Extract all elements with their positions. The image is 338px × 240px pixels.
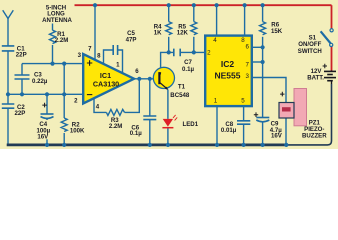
svg-text:NE555: NE555 — [215, 70, 241, 80]
svg-text:IC2: IC2 — [221, 59, 235, 69]
svg-text:CA3130: CA3130 — [93, 79, 119, 88]
svg-text:T1: T1 — [178, 83, 186, 90]
svg-text:6: 6 — [135, 68, 139, 75]
svg-text:47P: 47P — [126, 36, 137, 43]
svg-text:ANTENNA: ANTENNA — [42, 17, 72, 24]
svg-text:1: 1 — [214, 98, 218, 105]
svg-text:7: 7 — [245, 61, 249, 68]
svg-text:22P: 22P — [16, 51, 27, 58]
svg-text:BUZZER: BUZZER — [302, 133, 327, 140]
svg-text:3: 3 — [245, 73, 249, 80]
svg-text:2.2M: 2.2M — [55, 37, 69, 44]
svg-text:0.1µ: 0.1µ — [130, 130, 142, 137]
svg-text:SWITCH: SWITCH — [298, 48, 322, 55]
svg-text:5: 5 — [241, 98, 245, 105]
svg-text:0.1µ: 0.1µ — [182, 66, 194, 73]
svg-text:BATT.: BATT. — [307, 75, 324, 82]
svg-text:15K: 15K — [271, 28, 283, 35]
svg-text:0.22µ: 0.22µ — [32, 78, 48, 85]
svg-text:100K: 100K — [70, 128, 85, 135]
svg-text:0.01µ: 0.01µ — [221, 127, 237, 134]
svg-text:1K: 1K — [154, 30, 162, 37]
svg-text:16V: 16V — [37, 133, 49, 140]
svg-text:6: 6 — [245, 44, 249, 51]
svg-text:BC548: BC548 — [170, 92, 190, 99]
svg-text:16V: 16V — [271, 133, 283, 140]
svg-text:LED1: LED1 — [183, 121, 199, 128]
svg-text:2: 2 — [207, 49, 211, 56]
svg-text:22P: 22P — [15, 110, 26, 117]
svg-text:12K: 12K — [177, 30, 189, 37]
svg-text:2.2M: 2.2M — [109, 123, 123, 130]
svg-text:4: 4 — [96, 103, 100, 110]
svg-text:4: 4 — [213, 37, 217, 44]
